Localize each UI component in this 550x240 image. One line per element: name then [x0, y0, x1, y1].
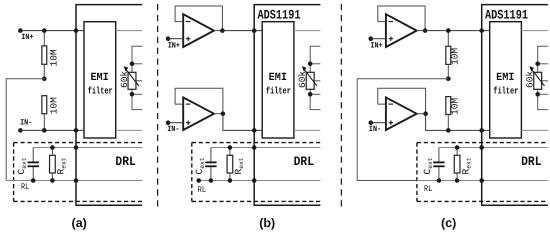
feedback junction	[423, 28, 428, 33]
60k variable resistor (lead-off)	[538, 46, 548, 109]
junction IN+ / 10M	[42, 28, 47, 33]
non-inverting input plus sign	[186, 122, 190, 124]
60k variable resistor (lead-off)	[132, 46, 142, 109]
wire buffer U2 out jog to chip	[223, 114, 262, 131]
wire IN- to EMI filter	[20, 129, 84, 131]
svg-text:ADS1191: ADS1191	[485, 7, 528, 22]
output wire	[417, 113, 426, 115]
svg-text:(a): (a)	[72, 216, 87, 230]
ADS1191 chip outline panel x=254.2	[254, 5, 320, 206]
capacitor C_ext	[438, 148, 440, 163]
wire IN+ to buffer	[371, 38, 386, 40]
inverting input minus sign	[186, 21, 191, 23]
patient RL electrode model dashed box	[192, 142, 321, 144]
op-amp buffer U2 (IN-)	[386, 97, 417, 130]
EMI filter block	[490, 22, 522, 138]
pin dot RL rail at chip edge	[74, 178, 79, 183]
feedback wire	[175, 88, 223, 113]
node wire top rail	[33, 147, 142, 149]
terminal IN+	[18, 28, 23, 33]
pin dot IN+ at chip edge	[479, 28, 484, 33]
wire midpoint to left rail	[6, 79, 44, 181]
junction C_ext bottom	[209, 178, 214, 183]
pin dot node rail at chip edge	[74, 145, 79, 150]
resistor R_ext	[229, 148, 231, 156]
60k arrow	[127, 70, 139, 86]
panel divider 1	[157, 4, 159, 209]
svg-text:RL: RL	[21, 182, 29, 192]
RL terminal	[196, 178, 201, 183]
node wire RL rail	[6, 180, 142, 182]
junction IN- / 10M	[42, 128, 47, 133]
svg-text:10M: 10M	[450, 98, 461, 115]
patient RL electrode model dashed box	[417, 142, 548, 144]
svg-text:filter: filter	[266, 85, 291, 96]
svg-text:(b): (b)	[259, 216, 275, 230]
svg-text:IN-: IN-	[167, 125, 179, 134]
node wire top rail	[211, 147, 321, 149]
op-amp buffer U2 (IN-)	[183, 97, 214, 130]
wire IN- to buffer	[371, 122, 386, 124]
svg-text:60k: 60k	[297, 71, 308, 88]
svg-text:EMI: EMI	[90, 72, 108, 84]
terminal IN-	[18, 128, 23, 133]
feedback wire	[175, 6, 222, 31]
wire EMI output IN+ side	[294, 30, 321, 32]
svg-text:60k: 60k	[119, 71, 130, 88]
pin dot IN- at chip edge	[479, 128, 484, 133]
svg-text:DRL: DRL	[521, 154, 542, 169]
terminal IN-	[166, 120, 171, 125]
feedback wire	[378, 88, 426, 113]
op-amp buffer U1 (IN+)	[183, 14, 214, 47]
resistor R_ext	[456, 148, 458, 156]
wire midpoint to RL rail	[357, 79, 448, 181]
capacitor C_ext	[210, 148, 212, 163]
svg-text:RL: RL	[424, 184, 432, 194]
svg-text:ADS1191: ADS1191	[258, 7, 301, 22]
EMI filter block	[262, 22, 294, 138]
feedback junction	[220, 28, 225, 33]
svg-text:IN+: IN+	[168, 41, 180, 50]
non-inverting input plus sign	[389, 122, 393, 124]
junction C_ext bottom	[437, 178, 442, 183]
inverting input minus sign	[389, 103, 394, 105]
wire buffer U1 out to chip	[425, 30, 490, 32]
junction 10M midpoint	[446, 76, 451, 81]
svg-text:60k: 60k	[525, 71, 536, 88]
resistor R 10M upper (c)	[447, 31, 449, 47]
pin dot RL rail at chip edge	[252, 178, 257, 183]
wire EMI output IN- side	[521, 129, 548, 131]
svg-text:filter: filter	[88, 85, 113, 96]
svg-text:IN-: IN-	[20, 119, 32, 128]
resistor R 10M upper	[43, 31, 45, 46]
output wire	[214, 113, 223, 115]
non-inverting input plus sign	[186, 38, 190, 40]
node wire RL rail	[417, 180, 548, 182]
svg-text:filter: filter	[493, 85, 518, 96]
pin dot node rail at chip edge	[479, 145, 484, 150]
panel divider 2	[340, 4, 342, 209]
ADS1191 chip outline panel x=76.0	[76, 5, 142, 206]
svg-text:10M: 10M	[48, 49, 59, 66]
svg-text:DRL: DRL	[115, 154, 136, 169]
resistor R 10M lower	[42, 96, 47, 114]
feedback junction	[423, 111, 428, 116]
op-amp buffer U1 (IN+)	[386, 14, 417, 47]
wire EMI output IN- side	[116, 129, 143, 131]
svg-text:IN-: IN-	[369, 125, 381, 134]
junction C_ext bottom	[31, 178, 36, 183]
terminal IN+	[369, 36, 374, 41]
resistor R 10M lower (c)	[446, 97, 451, 115]
wire EMI output IN+ side	[116, 30, 143, 32]
terminal IN+	[166, 36, 171, 41]
node wire top rail	[439, 147, 548, 149]
junction R_ext bottom	[228, 178, 233, 183]
junction 10M bottom	[446, 128, 451, 133]
junction R_ext bottom	[455, 178, 460, 183]
svg-text:(c): (c)	[441, 216, 456, 230]
pin dot RL rail at chip edge	[479, 178, 484, 183]
junction R_ext top	[50, 145, 55, 150]
pin dot node rail at chip edge	[252, 145, 257, 150]
svg-text:RL: RL	[198, 185, 206, 195]
junction 10M midpoint	[42, 76, 47, 81]
pin dot IN- at chip edge	[74, 128, 79, 133]
node wire RL rail	[199, 180, 321, 182]
output wire	[417, 30, 426, 32]
pin dot IN+ at chip edge	[252, 28, 257, 33]
inverting input minus sign	[389, 21, 394, 23]
feedback wire	[378, 6, 425, 31]
svg-text:10M: 10M	[48, 97, 59, 114]
wire IN+ to buffer	[168, 38, 183, 40]
ADS1191 chip outline panel x=481.7	[482, 5, 548, 206]
svg-text:EMI: EMI	[496, 72, 514, 84]
wire IN+ to EMI filter	[20, 30, 84, 32]
wire EMI output IN- side	[294, 129, 321, 131]
svg-text:DRL: DRL	[294, 154, 315, 169]
svg-text:IN+: IN+	[370, 42, 382, 51]
inverting input minus sign	[186, 103, 191, 105]
wire buffer U2 out jog to chip	[426, 114, 490, 131]
60k arrow	[305, 70, 317, 86]
terminal IN-	[369, 120, 374, 125]
patient RL electrode model dashed box	[14, 142, 143, 144]
wire buffer U1 out to chip	[222, 30, 262, 32]
capacitor C_ext	[32, 148, 34, 163]
pin dot IN- at chip edge	[252, 128, 257, 133]
wire IN- to buffer	[168, 122, 183, 124]
svg-text:EMI: EMI	[269, 72, 287, 84]
junction 10M top	[446, 28, 451, 33]
junction R_ext top	[228, 145, 233, 150]
60k arrow	[532, 70, 544, 86]
60k variable resistor (lead-off)	[310, 46, 320, 109]
EMI filter block	[84, 22, 116, 138]
output wire	[214, 30, 223, 32]
pin dot IN+ at chip edge	[74, 28, 79, 33]
feedback junction	[221, 111, 226, 116]
wire EMI output IN+ side	[521, 30, 548, 32]
resistor R_ext	[51, 148, 53, 156]
non-inverting input plus sign	[389, 38, 393, 40]
svg-text:10M: 10M	[450, 48, 461, 65]
junction R_ext top	[455, 145, 460, 150]
junction R_ext bottom	[50, 178, 55, 183]
svg-text:IN+: IN+	[21, 33, 33, 42]
